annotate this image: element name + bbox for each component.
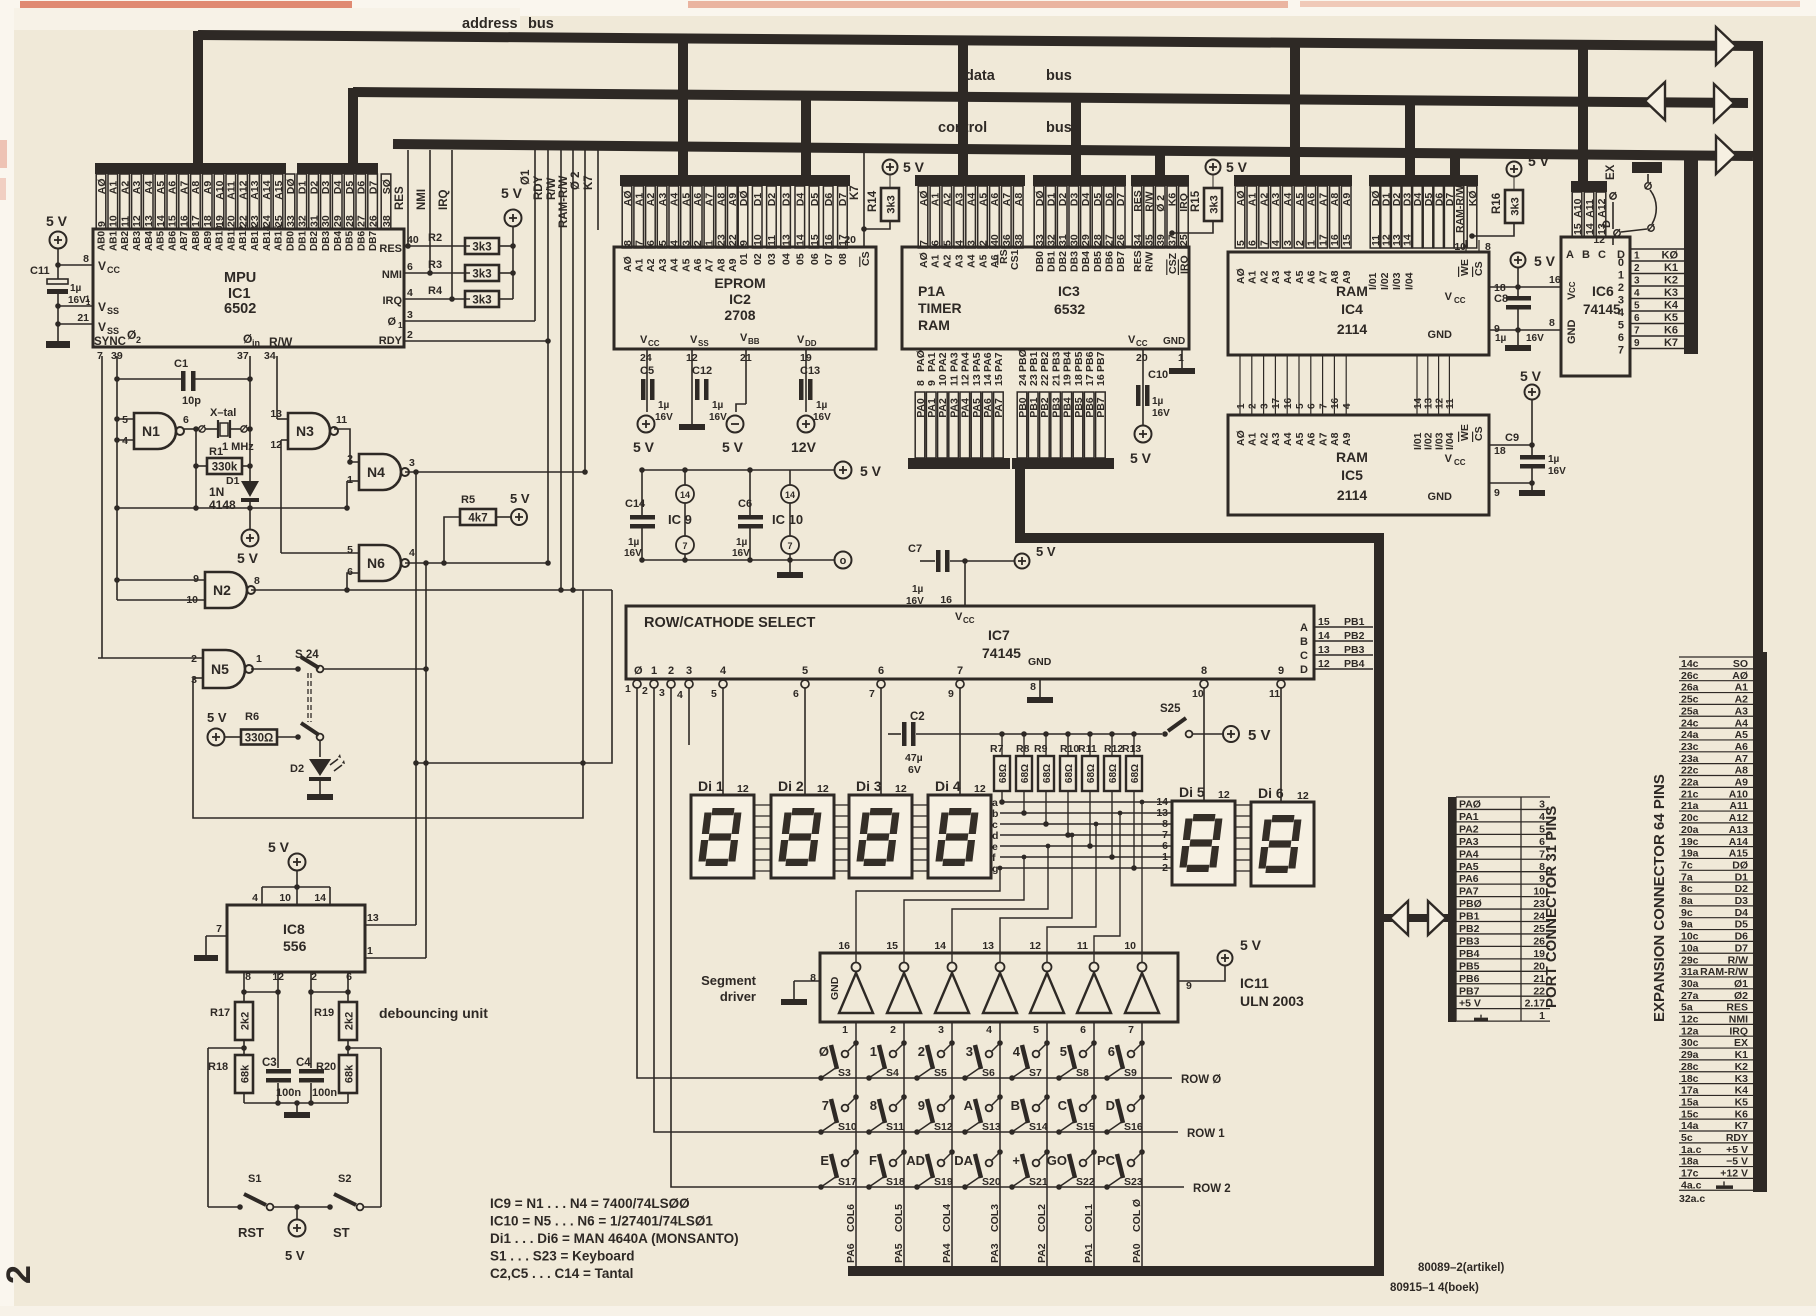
svg-text:1a.c: 1a.c [1681, 1144, 1702, 1156]
svg-text:A2: A2 [942, 193, 954, 207]
svg-text:68Ω: 68Ω [1064, 764, 1075, 783]
K0-K7 output table of IC6 [1630, 260, 1684, 262]
wire MPU RDY pin to RDY line [404, 340, 548, 342]
wire IC7 pin1 to ROW1 [654, 688, 1178, 1132]
svg-text:WE: WE [1459, 424, 1471, 441]
svg-text:A4: A4 [669, 258, 681, 272]
keyboard column wires [855, 1022, 857, 1266]
svg-text:A1: A1 [1735, 682, 1749, 694]
svg-text:IC11: IC11 [1240, 975, 1269, 991]
svg-text:5 V: 5 V [207, 710, 227, 725]
svg-text:3: 3 [191, 674, 197, 686]
svg-text:COL6: COL6 [845, 1204, 857, 1232]
svg-text:26: 26 [367, 215, 379, 227]
svg-text:6: 6 [645, 240, 657, 246]
svg-text:37: 37 [1167, 234, 1179, 246]
svg-text:7: 7 [1618, 345, 1624, 357]
svg-text:RDY: RDY [533, 175, 545, 200]
svg-text:R6: R6 [245, 711, 259, 723]
svg-text:68Ω: 68Ω [1020, 764, 1031, 783]
svg-text:4: 4 [1634, 288, 1640, 299]
svg-text:AB6: AB6 [167, 231, 178, 251]
svg-text:7: 7 [869, 688, 875, 700]
svg-text:16V: 16V [1548, 466, 1566, 477]
wire phi2 line [584, 150, 586, 472]
svg-text:38: 38 [381, 215, 393, 227]
svg-text:12: 12 [131, 215, 143, 227]
svg-text:12: 12 [1218, 789, 1230, 801]
svg-text:35: 35 [1143, 234, 1155, 246]
svg-text:14: 14 [680, 490, 690, 500]
svg-text:CC: CC [963, 616, 975, 625]
svg-text:8: 8 [622, 240, 634, 246]
svg-text:COL5: COL5 [893, 1204, 905, 1232]
svg-text:19: 19 [1062, 374, 1074, 386]
svg-text:in: in [252, 338, 260, 348]
svg-text:10a: 10a [1681, 942, 1699, 954]
svg-text:07: 07 [823, 253, 835, 265]
svg-text:COL1: COL1 [1083, 1204, 1095, 1232]
IC4 data pin header [1369, 175, 1452, 186]
MPU IC1 address pin header [95, 163, 286, 174]
svg-text:3k3: 3k3 [1209, 195, 1221, 213]
svg-text:6: 6 [1634, 313, 1640, 324]
svg-text:2: 2 [918, 1044, 925, 1059]
MPU IC1 SO pin [381, 174, 391, 229]
resistors R7-R13 68 ohm [999, 731, 1005, 737]
wire EPROM VCC down [646, 349, 648, 412]
svg-text:Ø 2: Ø 2 [570, 171, 582, 190]
svg-text:A8: A8 [1329, 193, 1341, 207]
svg-text:Ø: Ø [634, 665, 643, 677]
svg-text:D5: D5 [809, 193, 821, 207]
svg-text:K7: K7 [849, 185, 861, 200]
svg-text:A5: A5 [1294, 270, 1306, 284]
svg-text:4: 4 [409, 547, 415, 559]
svg-text:AB10: AB10 [215, 225, 226, 251]
svg-text:PB7: PB7 [1095, 351, 1107, 372]
svg-text:K5: K5 [1735, 1096, 1749, 1108]
svg-text:2: 2 [1294, 240, 1306, 246]
svg-text:23c: 23c [1681, 741, 1699, 753]
svg-text:A5: A5 [155, 181, 167, 195]
svg-text:A2: A2 [1258, 270, 1270, 284]
svg-text:21: 21 [77, 312, 89, 324]
wire R16 to K0 line [1472, 223, 1514, 236]
svg-text:24: 24 [1017, 374, 1029, 386]
svg-text:A7: A7 [1317, 432, 1329, 446]
power +12V below C13 [798, 416, 815, 433]
svg-text:Ø: Ø [127, 328, 136, 342]
svg-text:A6: A6 [1735, 741, 1749, 753]
resistor R15 [1204, 188, 1222, 221]
wire RES from control bus [407, 150, 409, 246]
svg-text:ULN 2003: ULN 2003 [1240, 993, 1304, 1009]
svg-text:47µ: 47µ [905, 752, 923, 764]
svg-text:7: 7 [1128, 1024, 1134, 1036]
svg-text:DB1: DB1 [1045, 251, 1057, 272]
svg-text:A7: A7 [704, 193, 716, 207]
svg-text:2708: 2708 [724, 307, 755, 323]
svg-text:D5: D5 [1092, 193, 1104, 207]
svg-text:7: 7 [634, 240, 646, 246]
svg-text:RES: RES [379, 243, 402, 255]
svg-text:A3: A3 [954, 193, 966, 207]
svg-text:AØ: AØ [918, 252, 930, 268]
svg-text:8: 8 [1030, 681, 1036, 693]
svg-text:GND: GND [1428, 491, 1453, 503]
ground at IC11 pin 8 [781, 999, 807, 1005]
svg-text:C5: C5 [640, 365, 654, 377]
svg-text:AØ: AØ [622, 190, 634, 206]
svg-text:5: 5 [1235, 240, 1247, 246]
svg-text:EX: EX [1734, 1037, 1748, 1049]
svg-text:IC 10: IC 10 [772, 512, 803, 527]
svg-text:R8: R8 [1016, 743, 1030, 755]
svg-text:DB2: DB2 [1057, 251, 1069, 272]
nand gate N2 [205, 572, 247, 608]
svg-text:23: 23 [1028, 374, 1040, 386]
svg-text:6: 6 [347, 566, 353, 578]
svg-text:PA4: PA4 [1459, 848, 1479, 860]
7-segment display Di 2 [771, 795, 834, 878]
wire IC9 IC10 supply rail [642, 469, 834, 471]
svg-text:PA4: PA4 [941, 1243, 953, 1263]
switch S24 lower half [277, 736, 296, 738]
svg-text:7c: 7c [1681, 859, 1693, 871]
svg-text:A5: A5 [977, 193, 989, 207]
svg-text:1: 1 [704, 240, 716, 246]
wire pin7 SYNC vertical [101, 356, 103, 658]
wire IC11 inputs to segment lines [856, 868, 1000, 962]
svg-text:18: 18 [1494, 445, 1506, 457]
IC11 driver triangles [852, 963, 861, 972]
svg-text:330k: 330k [212, 462, 238, 474]
svg-text:K7: K7 [1664, 337, 1678, 349]
wire data drop to EPROM D-header [801, 92, 811, 180]
svg-text:S3: S3 [838, 1067, 851, 1079]
svg-text:PA3: PA3 [1459, 836, 1479, 848]
svg-text:K6: K6 [1735, 1108, 1749, 1120]
svg-text:7: 7 [822, 1098, 829, 1113]
svg-text:CSZ: CSZ [1167, 252, 1179, 274]
svg-text:5c: 5c [1681, 1132, 1693, 1144]
svg-text:D1: D1 [1735, 871, 1749, 883]
svg-text:A2: A2 [645, 193, 657, 207]
svg-text:S1: S1 [248, 1173, 261, 1185]
svg-text:GND: GND [829, 976, 841, 1000]
IC3 PB bus cap [1012, 458, 1114, 469]
wire R5 left down to N6 output line [444, 517, 460, 563]
svg-text:C12: C12 [692, 365, 712, 377]
svg-text:R9: R9 [1034, 743, 1048, 755]
svg-text:bus: bus [1046, 120, 1072, 136]
svg-text:12: 12 [1297, 790, 1309, 802]
wire EPROM VDD down [805, 349, 807, 412]
svg-text:1: 1 [870, 1044, 877, 1059]
svg-text:7: 7 [1634, 326, 1640, 337]
svg-text:1: 1 [347, 474, 353, 486]
svg-text:A7: A7 [1001, 193, 1013, 207]
svg-text:5 V: 5 V [268, 839, 290, 855]
svg-text:PA2: PA2 [937, 352, 949, 372]
svg-text:D2: D2 [1735, 883, 1749, 895]
svg-text:S12: S12 [934, 1121, 953, 1133]
svg-text:22: 22 [1039, 374, 1051, 386]
svg-text:1µ: 1µ [1495, 333, 1507, 344]
svg-text:V: V [1445, 453, 1453, 465]
svg-text:D3: D3 [780, 193, 792, 207]
svg-text:24: 24 [261, 215, 273, 227]
svg-text:A3: A3 [131, 181, 143, 195]
capacitor C8 cluster [1511, 253, 1526, 268]
wire IC7 pin4 to Di1 [722, 688, 724, 795]
svg-text:B: B [1300, 636, 1308, 648]
7-segment display Di 6 [1251, 802, 1314, 886]
svg-text:CC: CC [648, 339, 660, 348]
svg-text:3k3: 3k3 [1510, 197, 1522, 215]
svg-text:4: 4 [677, 689, 683, 701]
svg-text:R/W: R/W [1728, 954, 1749, 966]
svg-text:CS: CS [1473, 261, 1485, 276]
svg-text:AB14: AB14 [262, 225, 273, 251]
svg-text:A14: A14 [261, 180, 273, 199]
svg-text:17a: 17a [1681, 1085, 1699, 1097]
svg-text:V: V [740, 332, 748, 344]
svg-text:P1A: P1A [918, 283, 945, 299]
svg-text:KØ: KØ [1467, 190, 1479, 206]
svg-text:C2,C5 . . . C14 = Tantal: C2,C5 . . . C14 = Tantal [490, 1266, 633, 1281]
svg-text:1µ: 1µ [712, 400, 724, 411]
svg-text:+5 V: +5 V [1459, 998, 1481, 1010]
svg-text:12a: 12a [1681, 1025, 1699, 1037]
svg-text:IC1: IC1 [228, 286, 251, 302]
wire data drop to IC4 D-header [1405, 98, 1415, 180]
power +5V below D1 [242, 530, 259, 547]
svg-text:68k: 68k [344, 1064, 356, 1083]
svg-text:6: 6 [1307, 403, 1318, 409]
svg-text:5 V: 5 V [510, 491, 530, 506]
wire crystal left node [195, 429, 197, 508]
wire segment supply rail [916, 733, 1162, 735]
svg-text:PB6: PB6 [1459, 973, 1480, 985]
svg-text:29: 29 [332, 215, 344, 227]
svg-text:RES: RES [1726, 1002, 1748, 1014]
svg-text:17c: 17c [1681, 1168, 1699, 1180]
svg-text:R14: R14 [867, 190, 879, 212]
svg-text:15: 15 [167, 215, 179, 227]
svg-text:Di 2: Di 2 [778, 778, 804, 794]
svg-text:D7: D7 [367, 181, 379, 195]
svg-text:6: 6 [183, 414, 189, 426]
red registration strip [20, 1, 352, 8]
svg-text:16: 16 [838, 940, 850, 952]
svg-text:31a: 31a [1681, 966, 1699, 978]
svg-text:14: 14 [934, 940, 946, 952]
wire IC7 pin2 to ROW2 [671, 688, 1184, 1187]
svg-text:1: 1 [1178, 352, 1184, 364]
svg-text:13: 13 [971, 374, 983, 386]
svg-text:1µ: 1µ [70, 283, 82, 294]
svg-text:PA2: PA2 [1036, 1243, 1048, 1263]
svg-text:A12: A12 [1596, 198, 1608, 217]
svg-text:RDY: RDY [1726, 1132, 1748, 1144]
svg-text:9a: 9a [1681, 919, 1693, 931]
svg-text:AB7: AB7 [179, 231, 190, 251]
wire EPROM VBB down [745, 349, 747, 404]
svg-text:5: 5 [122, 414, 128, 426]
svg-text:15: 15 [1572, 223, 1584, 235]
svg-text:RAM: RAM [1336, 449, 1368, 465]
svg-text:6: 6 [930, 240, 942, 246]
svg-text:9: 9 [926, 380, 938, 386]
svg-text:AB4: AB4 [144, 231, 155, 251]
svg-text:30: 30 [320, 215, 332, 227]
svg-text:DB6: DB6 [1103, 251, 1115, 272]
svg-text:8: 8 [1201, 665, 1207, 677]
svg-text:R15: R15 [1190, 190, 1202, 212]
7-segment display Di 1 [691, 795, 754, 878]
svg-text:7: 7 [682, 541, 687, 551]
svg-text:556: 556 [283, 938, 307, 954]
svg-text:3: 3 [680, 240, 692, 246]
svg-text:B: B [1011, 1098, 1020, 1113]
svg-text:A4: A4 [1282, 432, 1294, 446]
svg-text:A4: A4 [1735, 717, 1749, 729]
svg-text:DØ: DØ [1034, 190, 1046, 206]
svg-text:1: 1 [1236, 403, 1247, 409]
svg-text:04: 04 [780, 253, 792, 265]
svg-text:AB3: AB3 [132, 231, 143, 251]
svg-text:16: 16 [178, 215, 190, 227]
svg-text:IC4: IC4 [1341, 301, 1363, 317]
svg-text:A3: A3 [1270, 432, 1282, 446]
svg-text:N4: N4 [367, 464, 385, 480]
svg-text:A1: A1 [634, 258, 646, 272]
svg-text:5: 5 [1060, 1044, 1067, 1059]
keyboard switches row 0 [853, 1040, 859, 1046]
wire control bus to K0-K7 bar [1686, 152, 1696, 352]
svg-text:Di1 . . . Di6 = MAN 4640A (MON: Di1 . . . Di6 = MAN 4640A (MONSANTO) [490, 1231, 739, 1246]
svg-text:D1: D1 [752, 193, 764, 207]
svg-text:A: A [964, 1098, 974, 1113]
svg-text:DB0: DB0 [1034, 251, 1046, 272]
svg-text:PB0: PB0 [1017, 397, 1029, 418]
svg-text:10p: 10p [182, 395, 201, 407]
svg-text:COL Ø: COL Ø [1131, 1199, 1143, 1232]
svg-text:IRQ: IRQ [438, 190, 450, 211]
svg-text:K7: K7 [1735, 1120, 1749, 1132]
bus trunk right vertical [1753, 41, 1763, 1192]
svg-text:1: 1 [1539, 1010, 1545, 1022]
svg-text:EX: EX [1605, 164, 1617, 180]
svg-text:GND: GND [1566, 320, 1578, 345]
ground below debouncer [284, 1112, 310, 1118]
svg-text:7: 7 [957, 665, 963, 677]
wire IC9 IC10 ground rail [642, 559, 834, 561]
svg-text:AØ: AØ [1732, 670, 1748, 682]
svg-text:A5: A5 [680, 193, 692, 207]
svg-text:S18: S18 [886, 1176, 905, 1188]
svg-text:9: 9 [1494, 487, 1500, 499]
svg-text:D5: D5 [344, 181, 356, 195]
svg-text:A7: A7 [1735, 753, 1749, 765]
wire PB cap to keyboard bus [1015, 469, 1025, 538]
svg-text:5 V: 5 V [722, 439, 744, 455]
svg-text:D: D [1601, 220, 1613, 228]
svg-text:6: 6 [878, 665, 884, 677]
svg-text:14: 14 [1413, 397, 1424, 409]
svg-text:PA2: PA2 [937, 398, 949, 418]
svg-text:A6: A6 [1306, 432, 1318, 446]
svg-text:PA5: PA5 [971, 398, 983, 418]
power +5V for IC9 IC10 [835, 462, 852, 479]
wire address drop to IC6 A10-A12 header [1578, 41, 1588, 184]
svg-text:IC 9: IC 9 [668, 512, 692, 527]
svg-text:A15: A15 [273, 180, 285, 199]
svg-text:20: 20 [844, 234, 856, 246]
svg-text:PA1: PA1 [1459, 811, 1479, 823]
svg-text:PC: PC [1097, 1153, 1116, 1168]
svg-text:N5: N5 [211, 661, 229, 677]
svg-text:12: 12 [1318, 658, 1330, 670]
capacitor C9 cluster [1525, 385, 1540, 400]
svg-text:A2: A2 [1258, 193, 1270, 207]
svg-text:A6: A6 [167, 181, 179, 195]
svg-text:CC: CC [1454, 296, 1466, 305]
svg-text:6: 6 [1618, 332, 1624, 344]
svg-text:13: 13 [143, 215, 155, 227]
svg-text:7: 7 [1318, 403, 1329, 409]
RAM inter-wires data [1416, 355, 1418, 415]
wire address drop to IC3 A-header [958, 36, 968, 180]
svg-text:D3: D3 [1069, 193, 1081, 207]
svg-text:2: 2 [191, 653, 197, 665]
op IC6 74145 body [1561, 237, 1630, 376]
svg-text:9: 9 [193, 573, 199, 585]
svg-text:74145: 74145 [982, 645, 1021, 661]
svg-text:20: 20 [226, 215, 238, 227]
svg-text:A1: A1 [108, 181, 120, 195]
svg-text:IC6: IC6 [1592, 283, 1614, 299]
svg-text:DB3: DB3 [1069, 251, 1081, 272]
svg-text:4: 4 [252, 892, 258, 904]
svg-text:28c: 28c [1681, 1061, 1699, 1073]
svg-text:IC9 = N1 . . . N4 = 7400/74LSØ: IC9 = N1 . . . N4 = 7400/74LSØØ [490, 1196, 690, 1211]
svg-text:6: 6 [1080, 1024, 1086, 1036]
svg-text:1µ: 1µ [628, 537, 640, 548]
svg-text:K3: K3 [1735, 1073, 1749, 1085]
MPU IC1 data pin header [297, 163, 378, 174]
svg-text:C7: C7 [908, 543, 922, 555]
svg-text:4a.c: 4a.c [1681, 1179, 1702, 1191]
svg-text:+5 V: +5 V [1726, 1144, 1748, 1156]
svg-text:D6: D6 [1103, 193, 1115, 207]
svg-text:23: 23 [715, 234, 727, 246]
svg-text:−5 V: −5 V [1726, 1156, 1748, 1168]
IC3 data pin header [1033, 175, 1126, 186]
svg-text:3k3: 3k3 [472, 295, 491, 307]
wire keyboard bus to port connector with arrows [1384, 914, 1449, 922]
wire address bus left drop to MPU A-header [193, 31, 203, 170]
svg-text:3: 3 [1282, 240, 1294, 246]
EPROM IC2 data pin header [737, 175, 850, 186]
svg-text:7: 7 [787, 541, 792, 551]
svg-text:6: 6 [793, 688, 799, 700]
svg-text:R4: R4 [428, 285, 443, 297]
svg-text:9: 9 [738, 240, 750, 246]
svg-text:8: 8 [83, 253, 89, 265]
